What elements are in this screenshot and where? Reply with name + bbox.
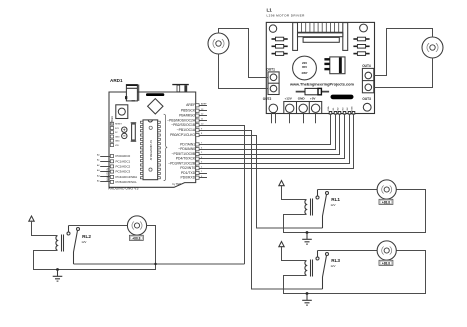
- svg-text:PD1/TXD: PD1/TXD: [181, 171, 196, 175]
- svg-text:~PD3/INT1/OC2B: ~PD3/INT1/OC2B: [168, 161, 196, 165]
- svg-text:~PB1/OC1A: ~PB1/OC1A: [177, 128, 196, 132]
- svg-text:L1: L1: [267, 7, 273, 12]
- svg-text:~PD5/T1/OC0B: ~PD5/T1/OC0B: [172, 152, 196, 156]
- svg-text:RL3: RL3: [331, 258, 340, 263]
- svg-text:GND: GND: [298, 97, 306, 101]
- svg-text:PD4/T0/XCK: PD4/T0/XCK: [176, 157, 196, 161]
- svg-text:VIN: VIN: [115, 145, 119, 147]
- svg-text:4W7: 4W7: [301, 71, 308, 75]
- svg-text:+12V: +12V: [285, 97, 293, 101]
- svg-text:AREF: AREF: [186, 103, 195, 107]
- svg-text:ANALOG IN: ANALOG IN: [107, 168, 110, 181]
- svg-text:ENB: ENB: [352, 106, 354, 111]
- svg-text:L298 MOTOR DRIVER: L298 MOTOR DRIVER: [267, 14, 306, 18]
- svg-text:A1: A1: [97, 159, 100, 162]
- svg-text:35V: 35V: [302, 65, 307, 69]
- svg-text:PB4/MISO: PB4/MISO: [179, 114, 195, 118]
- svg-text:PC4/ADC4/SDA: PC4/ADC4/SDA: [116, 175, 138, 179]
- svg-text:PB0/ICP1/CLKO: PB0/ICP1/CLKO: [170, 133, 195, 137]
- svg-text:+5V: +5V: [310, 97, 317, 101]
- svg-text:OUT1: OUT1: [266, 68, 275, 72]
- svg-text:AREF: AREF: [201, 102, 207, 105]
- svg-text:POWER: POWER: [111, 116, 114, 125]
- svg-text:PC5/ADC5/SCL: PC5/ADC5/SCL: [116, 180, 138, 184]
- svg-text:~PB2/SS/OC1B: ~PB2/SS/OC1B: [171, 123, 196, 127]
- svg-text:ENA: ENA: [327, 106, 330, 111]
- svg-text:by TEP: by TEP: [173, 182, 182, 186]
- svg-text:PD7/AIN1: PD7/AIN1: [180, 142, 195, 146]
- svg-text:A5: A5: [97, 179, 100, 182]
- svg-text:12V: 12V: [81, 240, 86, 244]
- svg-text:PD0/RXD: PD0/RXD: [180, 176, 195, 180]
- svg-text:ATMEGA328P-PU: ATMEGA328P-PU: [150, 140, 153, 161]
- svg-text:A0: A0: [97, 153, 100, 156]
- svg-text:PD2/INT0: PD2/INT0: [180, 166, 195, 170]
- svg-text:12V: 12V: [331, 264, 336, 268]
- svg-text:RL2: RL2: [82, 234, 91, 239]
- svg-text:OUT2: OUT2: [263, 97, 272, 101]
- svg-text:ARDUINO UNO V3: ARDUINO UNO V3: [108, 187, 138, 191]
- svg-text:ARD1: ARD1: [110, 78, 123, 83]
- svg-text:GND: GND: [115, 137, 120, 139]
- svg-text:A3: A3: [97, 169, 100, 172]
- svg-text:OUT4: OUT4: [362, 64, 371, 68]
- svg-text:8: 8: [201, 133, 203, 135]
- svg-text:~PD6/AIN0: ~PD6/AIN0: [178, 147, 195, 151]
- svg-text:~PB3/MOSI/OC2A: ~PB3/MOSI/OC2A: [167, 118, 196, 122]
- svg-text:RESET: RESET: [115, 124, 123, 126]
- svg-text:PC1/ADC1: PC1/ADC1: [116, 159, 131, 163]
- svg-text:PC2/ADC2: PC2/ADC2: [116, 164, 131, 168]
- svg-text:12V: 12V: [331, 203, 336, 207]
- svg-text:PC0/ADC0: PC0/ADC0: [116, 154, 131, 158]
- svg-text:GND: GND: [115, 141, 120, 143]
- svg-text:PC3/ADC3: PC3/ADC3: [116, 170, 131, 174]
- svg-text:RL1: RL1: [331, 197, 340, 202]
- svg-text:A2: A2: [97, 164, 100, 167]
- svg-text:5: 5: [201, 152, 203, 154]
- svg-text:A4: A4: [97, 174, 100, 177]
- svg-text:PB5/SCK: PB5/SCK: [181, 109, 196, 113]
- svg-text:OUT3: OUT3: [362, 97, 371, 101]
- svg-text:www.TheEngineeringProjects.com: www.TheEngineeringProjects.com: [289, 81, 355, 86]
- svg-text:1: 1: [201, 171, 203, 173]
